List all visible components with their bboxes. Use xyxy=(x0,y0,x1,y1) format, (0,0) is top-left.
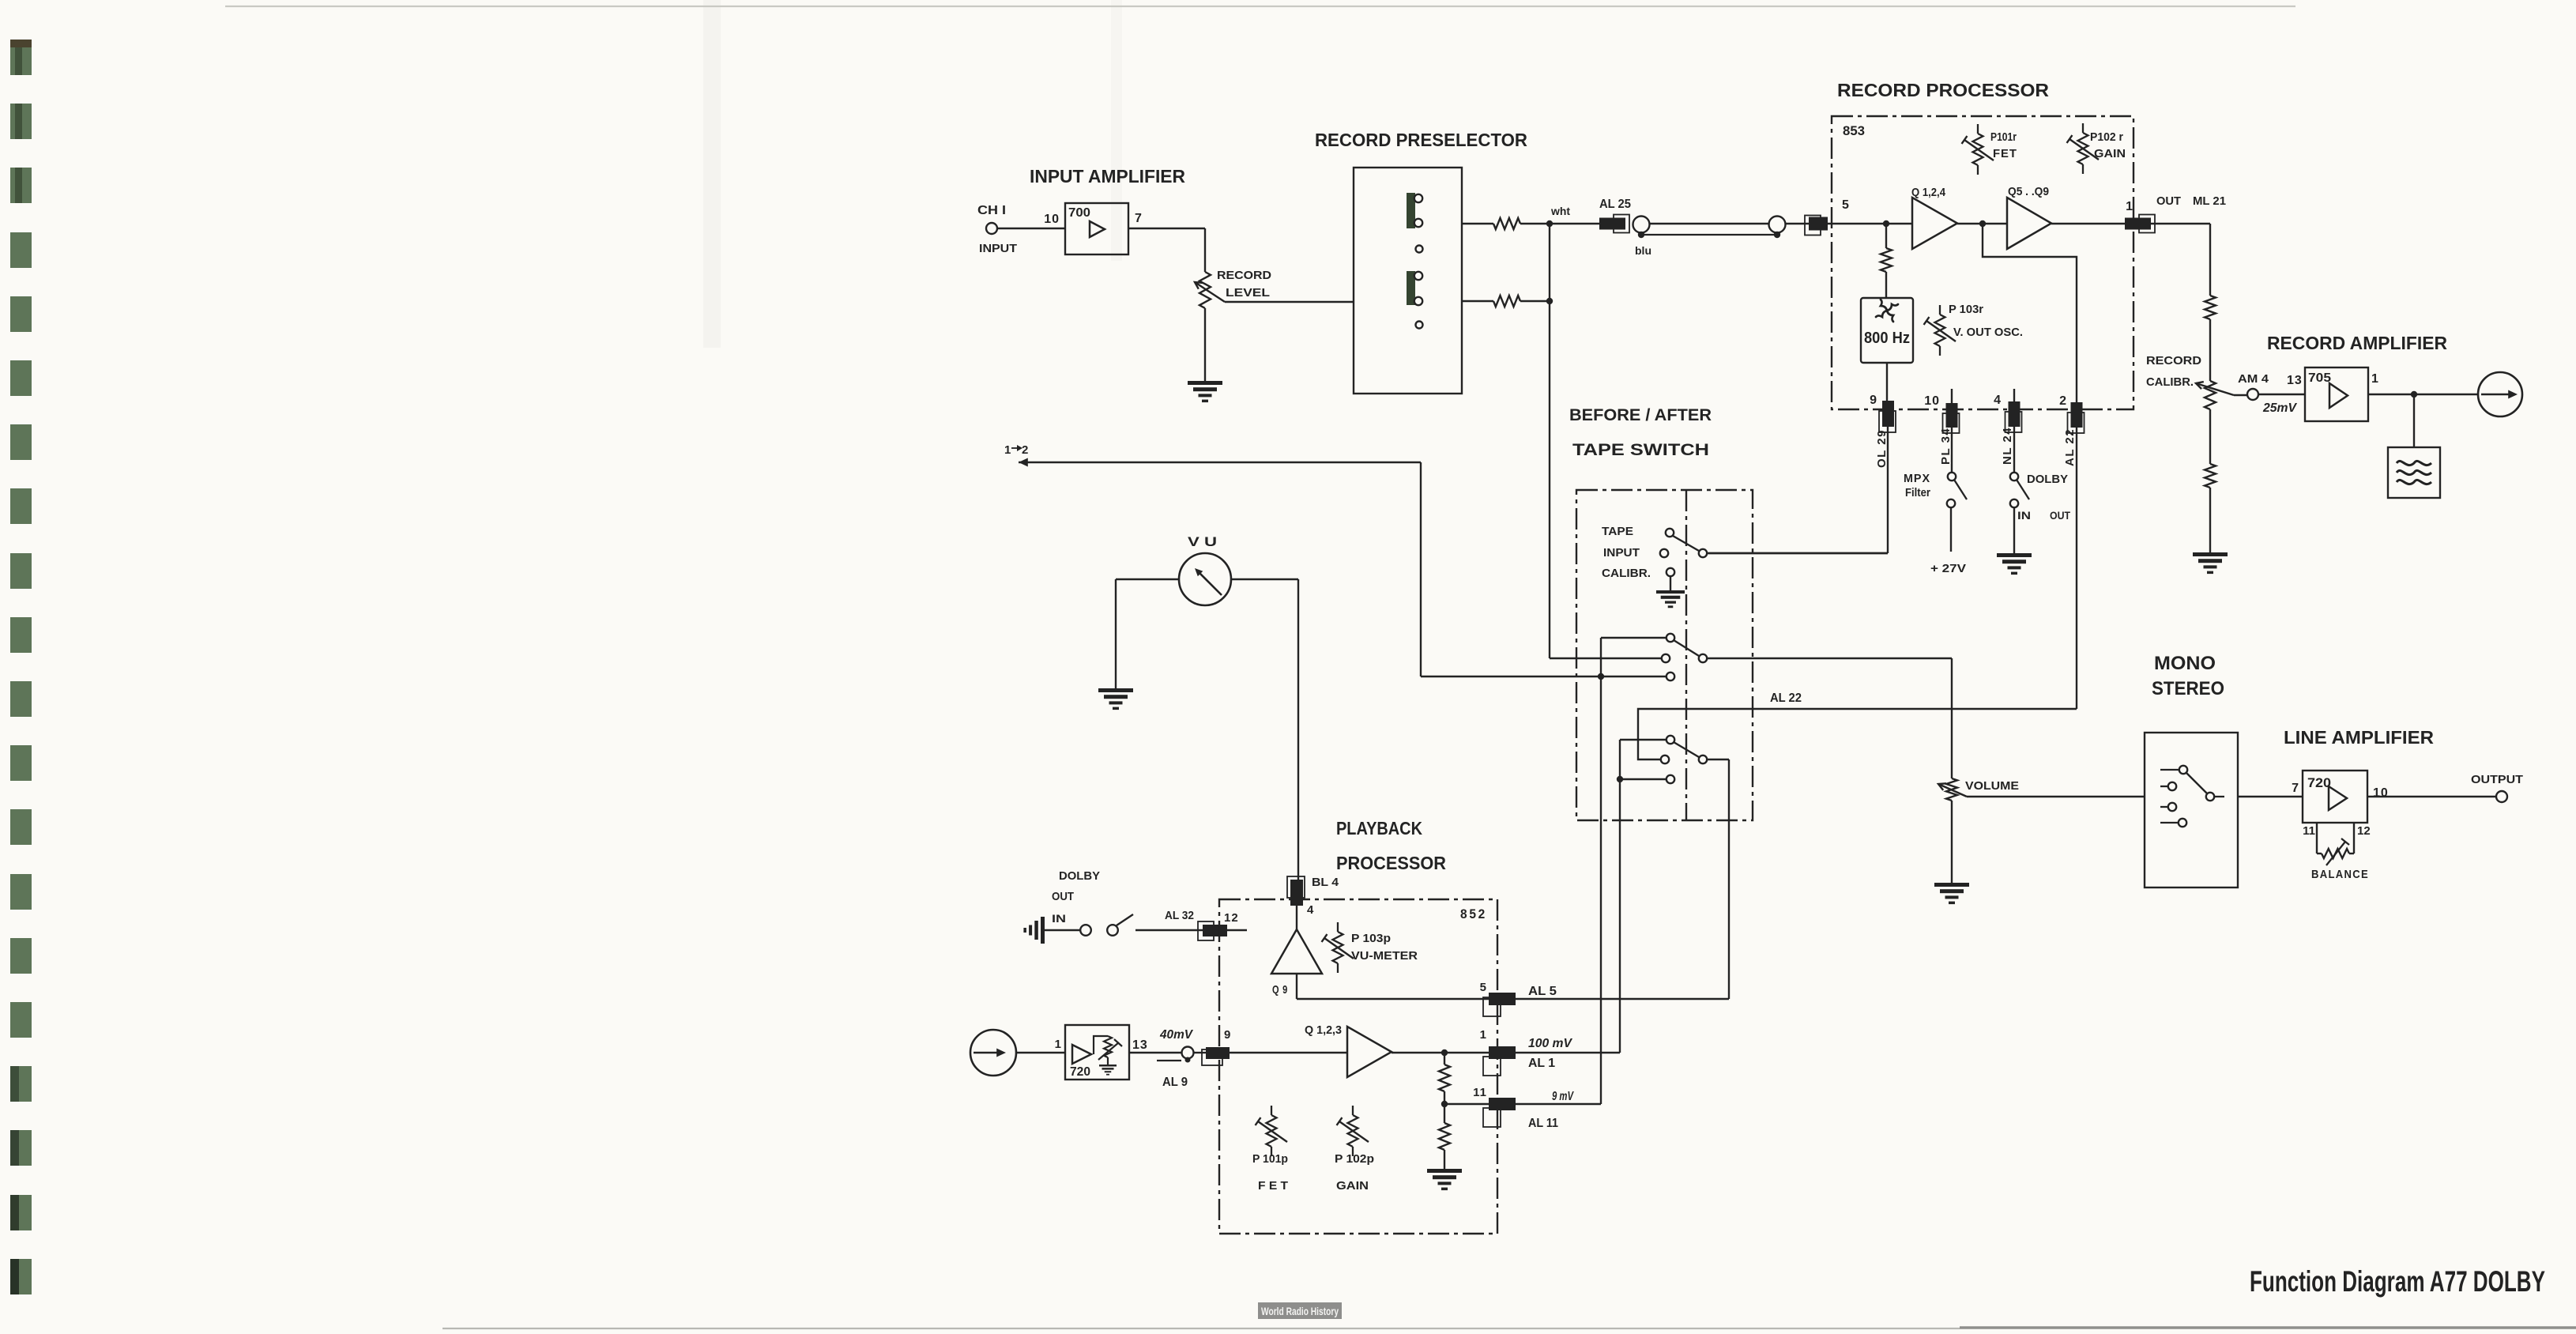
svg-text:BEFORE / AFTER: BEFORE / AFTER xyxy=(1569,406,1712,424)
svg-text:705: 705 xyxy=(2308,371,2331,385)
svg-text:10: 10 xyxy=(2373,786,2389,800)
svg-text:AM 4: AM 4 xyxy=(2238,372,2269,386)
svg-text:V. OUT OSC.: V. OUT OSC. xyxy=(1953,326,2023,339)
svg-text:700: 700 xyxy=(1068,206,1090,220)
svg-text:AL 25: AL 25 xyxy=(1599,198,1631,211)
svg-text:RECORD PROCESSOR: RECORD PROCESSOR xyxy=(1837,80,2049,100)
svg-text:1: 1 xyxy=(1055,1038,1062,1051)
svg-text:4: 4 xyxy=(1994,394,2002,407)
svg-text:5: 5 xyxy=(1480,981,1487,994)
svg-text:10: 10 xyxy=(1924,394,1940,408)
svg-text:Function Diagram A77 DOLBY: Function Diagram A77 DOLBY xyxy=(2250,1265,2545,1298)
svg-text:Q 9: Q 9 xyxy=(1272,983,1288,997)
svg-text:AL 22: AL 22 xyxy=(1770,691,1802,705)
svg-text:GAIN: GAIN xyxy=(2094,147,2126,160)
svg-text:PLAYBACK: PLAYBACK xyxy=(1336,818,1422,838)
svg-text:12: 12 xyxy=(1224,911,1239,925)
svg-text:VOLUME: VOLUME xyxy=(1965,779,2019,793)
svg-text:13: 13 xyxy=(2287,374,2303,387)
svg-text:Q 1,2,3: Q 1,2,3 xyxy=(1305,1023,1342,1037)
svg-text:100 mV: 100 mV xyxy=(1528,1037,1572,1050)
svg-text:AL 32: AL 32 xyxy=(1165,909,1194,922)
svg-text:MONO: MONO xyxy=(2154,653,2216,674)
svg-text:RECORD: RECORD xyxy=(1217,269,1271,282)
svg-text:P101r: P101r xyxy=(1990,130,2017,144)
svg-text:GAIN: GAIN xyxy=(1336,1179,1369,1193)
svg-text:V U: V U xyxy=(1188,534,1217,549)
svg-text:RECORD: RECORD xyxy=(2146,354,2201,367)
svg-text:720: 720 xyxy=(1070,1065,1090,1079)
svg-text:P 102p: P 102p xyxy=(1335,1152,1374,1166)
svg-text:IN: IN xyxy=(2017,509,2031,522)
svg-text:TAPE: TAPE xyxy=(1602,525,1633,538)
svg-text:2: 2 xyxy=(2059,394,2067,408)
svg-text:853: 853 xyxy=(1843,123,1865,138)
svg-text:1: 1 xyxy=(2371,372,2379,386)
svg-text:DOLBY: DOLBY xyxy=(1059,869,1100,883)
svg-text:7: 7 xyxy=(2292,782,2299,795)
svg-text:9: 9 xyxy=(1224,1028,1231,1042)
svg-text:blu: blu xyxy=(1635,245,1651,257)
svg-text:DOLBY: DOLBY xyxy=(2027,473,2068,486)
svg-text:11: 11 xyxy=(1473,1086,1487,1099)
svg-text:PROCESSOR: PROCESSOR xyxy=(1336,853,1446,873)
svg-text:9: 9 xyxy=(1870,394,1877,407)
svg-text:Filter: Filter xyxy=(1905,486,1930,499)
svg-text:VU-METER: VU-METER xyxy=(1351,949,1418,963)
svg-text:800 Hz: 800 Hz xyxy=(1864,330,1910,347)
svg-text:P 103p: P 103p xyxy=(1351,932,1391,945)
svg-text:OUTPUT: OUTPUT xyxy=(2471,773,2523,786)
svg-text:NL 24: NL 24 xyxy=(2001,427,2014,465)
svg-text:852: 852 xyxy=(1460,906,1487,921)
svg-text:13: 13 xyxy=(1132,1038,1148,1052)
svg-text:P 101p: P 101p xyxy=(1252,1152,1288,1166)
svg-text:10: 10 xyxy=(1044,213,1060,226)
svg-text:40mV: 40mV xyxy=(1159,1028,1193,1042)
svg-text:5: 5 xyxy=(1842,198,1850,212)
svg-text:AL 1: AL 1 xyxy=(1528,1057,1555,1070)
svg-text:STEREO: STEREO xyxy=(2152,678,2224,699)
svg-text:INPUT: INPUT xyxy=(1603,546,1640,560)
svg-text:RECORD PRESELECTOR: RECORD PRESELECTOR xyxy=(1315,130,1527,150)
svg-text:OUT: OUT xyxy=(2050,509,2070,522)
svg-text:CH I: CH I xyxy=(977,204,1006,217)
svg-text:LEVEL: LEVEL xyxy=(1226,286,1270,300)
svg-text:wht: wht xyxy=(1550,205,1571,217)
svg-text:AL 11: AL 11 xyxy=(1528,1117,1558,1130)
svg-text:P102 r: P102 r xyxy=(2090,130,2123,144)
svg-text:ML 21: ML 21 xyxy=(2193,194,2226,208)
svg-text:1: 1 xyxy=(2126,200,2133,213)
svg-text:9 mV: 9 mV xyxy=(1552,1090,1574,1103)
svg-text:BL 4: BL 4 xyxy=(1312,876,1339,889)
svg-text:7: 7 xyxy=(1135,212,1143,225)
svg-text:AL 5: AL 5 xyxy=(1528,985,1557,998)
svg-text:25mV: 25mV xyxy=(2262,401,2297,415)
svg-text:World Radio History: World Radio History xyxy=(1261,1306,1339,1317)
svg-text:IN: IN xyxy=(1052,912,1066,925)
svg-text:1: 1 xyxy=(1004,443,1011,457)
svg-text:Q5 . .Q9: Q5 . .Q9 xyxy=(2008,185,2049,198)
svg-text:BALANCE: BALANCE xyxy=(2311,868,2369,881)
svg-text:4: 4 xyxy=(1307,903,1314,917)
svg-text:OL 29: OL 29 xyxy=(1875,429,1889,468)
svg-text:INPUT AMPLIFIER: INPUT AMPLIFIER xyxy=(1030,166,1185,187)
svg-text:F E T: F E T xyxy=(1258,1179,1288,1193)
svg-text:P 103r: P 103r xyxy=(1949,303,1983,316)
svg-text:1: 1 xyxy=(1480,1028,1487,1042)
svg-text:PL 34: PL 34 xyxy=(1939,428,1953,465)
svg-text:+ 27V: + 27V xyxy=(1930,562,1966,575)
svg-text:FET: FET xyxy=(1993,147,2017,160)
svg-text:12: 12 xyxy=(2357,824,2371,838)
svg-text:2: 2 xyxy=(1022,443,1028,457)
svg-text:LINE AMPLIFIER: LINE AMPLIFIER xyxy=(2284,727,2434,748)
svg-text:AL 9: AL 9 xyxy=(1162,1076,1188,1089)
svg-text:720: 720 xyxy=(2307,775,2331,790)
svg-text:11: 11 xyxy=(2303,824,2315,838)
svg-text:CALIBR.: CALIBR. xyxy=(1602,567,1651,580)
svg-text:Q 1,2,4: Q 1,2,4 xyxy=(1911,186,1946,199)
svg-text:TAPE SWITCH: TAPE SWITCH xyxy=(1572,441,1709,459)
svg-text:MPX: MPX xyxy=(1904,472,1930,485)
svg-text:AL 22: AL 22 xyxy=(2063,428,2077,466)
svg-text:OUT: OUT xyxy=(1052,890,1074,903)
svg-text:OUT: OUT xyxy=(2156,194,2181,208)
svg-text:INPUT: INPUT xyxy=(979,242,1017,255)
svg-text:CALIBR.: CALIBR. xyxy=(2146,375,2194,389)
svg-text:RECORD AMPLIFIER: RECORD AMPLIFIER xyxy=(2267,333,2447,353)
